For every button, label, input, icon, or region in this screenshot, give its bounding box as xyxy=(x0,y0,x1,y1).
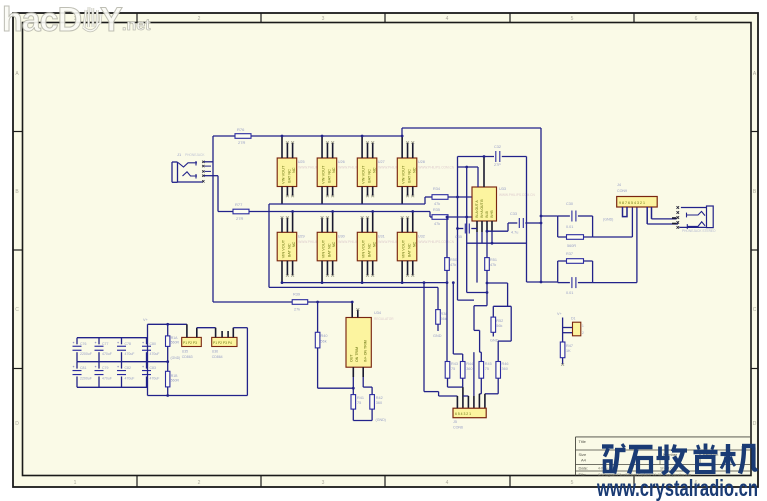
svg-text:75: 75 xyxy=(451,367,455,371)
svg-text:1: 1 xyxy=(582,324,584,328)
capacitor C33 xyxy=(508,222,517,224)
svg-text:NC: NC xyxy=(331,167,336,173)
svg-text:+: + xyxy=(117,341,119,345)
wire top pin jog xyxy=(458,166,479,168)
capacitor C76 xyxy=(73,338,92,362)
resistor R34 xyxy=(432,195,448,200)
svg-text:C35: C35 xyxy=(455,235,462,239)
wire busB drop xyxy=(437,287,439,309)
svg-text:R77: R77 xyxy=(235,202,243,207)
svg-text:27k: 27k xyxy=(294,308,300,312)
svg-text:0.01: 0.01 xyxy=(566,225,573,229)
U36 pins xyxy=(215,328,217,338)
regulator U29 xyxy=(277,210,297,284)
RC network lower C31 xyxy=(557,261,559,283)
wire bottom loop xyxy=(148,395,248,397)
svg-text:U25: U25 xyxy=(298,160,305,164)
svg-text:560R: 560R xyxy=(171,379,180,383)
svg-text:P1 P2 P3 P4: P1 P2 P3 P4 xyxy=(213,341,232,345)
svg-text:360: 360 xyxy=(466,367,472,371)
svg-text:+: + xyxy=(142,365,144,369)
svg-text:R41: R41 xyxy=(357,396,364,400)
wire vertical 447 R50 chain xyxy=(446,217,448,258)
svg-text:CD864: CD864 xyxy=(212,355,223,359)
svg-text:R43: R43 xyxy=(451,362,458,366)
svg-text:U26: U26 xyxy=(338,160,345,164)
svg-text:27R: 27R xyxy=(236,216,243,221)
wire bus1 jog up xyxy=(401,128,403,136)
svg-text:P1 P2 P3: P1 P2 P3 xyxy=(183,341,197,345)
wire busA row2 xyxy=(282,282,448,284)
wire J1 ring down xyxy=(204,175,218,177)
regulator U32 xyxy=(397,210,417,284)
capacitor C79 xyxy=(95,362,112,388)
svg-text:J5: J5 xyxy=(453,420,457,424)
svg-text:U35: U35 xyxy=(182,350,188,354)
svg-text:C30: C30 xyxy=(566,202,573,206)
svg-text:U30: U30 xyxy=(338,234,345,238)
wire mesh left stairs xyxy=(474,305,487,307)
svg-text:470uF: 470uF xyxy=(102,377,112,381)
regulator U31 xyxy=(357,210,377,284)
capacitor C32 top xyxy=(458,156,495,158)
U35 pins xyxy=(186,324,188,337)
svg-text:+: + xyxy=(117,365,119,369)
svg-text:VIN VOUT: VIN VOUT xyxy=(281,239,286,258)
svg-text:75: 75 xyxy=(357,401,361,405)
svg-text:U29: U29 xyxy=(298,234,305,238)
svg-text:C81: C81 xyxy=(80,366,86,370)
IC U36 xyxy=(212,337,237,346)
svg-text:470uF: 470uF xyxy=(125,377,135,381)
svg-text:D1: D1 xyxy=(571,317,576,321)
svg-text:NC: NC xyxy=(411,241,416,247)
svg-text:D: D xyxy=(15,421,19,427)
resistor R40 xyxy=(315,332,320,348)
regulator U27 xyxy=(357,135,377,204)
resistor R77 xyxy=(233,209,249,214)
svg-text:V+: V+ xyxy=(143,318,149,322)
svg-text:56k: 56k xyxy=(321,340,327,344)
svg-text:Title: Title xyxy=(579,439,587,444)
svg-text:56k: 56k xyxy=(441,317,447,321)
svg-text:R39: R39 xyxy=(293,293,300,297)
wire bus2 xyxy=(218,211,430,213)
svg-text:NC: NC xyxy=(371,167,376,173)
RC network upper C30 xyxy=(541,215,558,217)
svg-text:VIN VOUT: VIN VOUT xyxy=(361,165,366,184)
wire bank right vertical V+ xyxy=(147,324,149,395)
wire J1 tip to bus1 xyxy=(204,161,213,163)
svg-text:360: 360 xyxy=(376,401,382,405)
svg-text:(GND): (GND) xyxy=(171,356,181,360)
U34 top pins xyxy=(351,302,353,318)
svg-text:+: + xyxy=(95,365,97,369)
svg-text:+: + xyxy=(95,341,97,345)
resistor R50 xyxy=(445,258,450,271)
resistor R43 xyxy=(445,362,450,379)
svg-text:+: + xyxy=(142,341,144,345)
svg-text:U31: U31 xyxy=(378,234,385,238)
svg-text:2200uF: 2200uF xyxy=(80,377,92,381)
wire LED feed xyxy=(562,318,564,343)
connector J4 xyxy=(617,197,658,208)
svg-text:VIN VOUT: VIN VOUT xyxy=(281,165,286,184)
wire horizontal 231 xyxy=(487,230,508,232)
wire vertical 466.7 xyxy=(466,167,468,293)
svg-text:470uF: 470uF xyxy=(125,352,135,356)
svg-text:PHONEJACK: PHONEJACK xyxy=(185,153,205,157)
capacitor C78 xyxy=(117,338,134,362)
svg-text:R37: R37 xyxy=(566,252,573,256)
resistor R49 xyxy=(166,371,170,387)
svg-text:56k: 56k xyxy=(496,324,502,328)
wire bank rails xyxy=(77,337,148,339)
svg-text:www.crystalradio.cn: www.crystalradio.cn xyxy=(596,475,758,501)
resistor R39 xyxy=(292,300,308,305)
svg-text:3: 3 xyxy=(322,480,325,486)
wire right long vertical xyxy=(540,128,542,283)
wire horizontal 243 xyxy=(467,242,527,244)
svg-text:File:: File: xyxy=(579,472,587,477)
op-amp top pin xyxy=(483,157,485,188)
svg-text:GND: GND xyxy=(433,334,442,338)
svg-text:Size: Size xyxy=(579,452,588,457)
wire R44 feed staircase xyxy=(452,283,454,354)
svg-text:IN+ ON TRIM: IN+ ON TRIM xyxy=(364,340,368,362)
wire row1 bottom bus xyxy=(269,203,425,205)
svg-text:C: C xyxy=(15,307,19,313)
svg-text:4: 4 xyxy=(446,16,449,22)
svg-text:(GND): (GND) xyxy=(376,418,386,422)
svg-text:C33: C33 xyxy=(510,212,517,216)
svg-text:R44: R44 xyxy=(466,362,473,366)
svg-text:Y: Y xyxy=(100,1,123,39)
svg-text:U28: U28 xyxy=(418,160,425,164)
resistor R41 xyxy=(351,395,356,410)
wire left column down xyxy=(268,204,270,287)
regulator U28 xyxy=(397,135,417,204)
svg-text:PHONEJACK STEREO: PHONEJACK STEREO xyxy=(682,229,716,233)
svg-text:0.01: 0.01 xyxy=(566,291,573,295)
svg-text:CON6: CON6 xyxy=(453,426,463,430)
svg-text:R52: R52 xyxy=(496,319,503,323)
regulator U26 xyxy=(317,135,337,204)
phone jack output xyxy=(672,206,713,229)
logo crystalradio "kuang shi shou yin ji" xyxy=(602,444,757,475)
svg-text:D: D xyxy=(753,421,757,427)
svg-text:C76: C76 xyxy=(80,342,86,346)
capacitor C35 xyxy=(458,228,464,230)
svg-text:2: 2 xyxy=(198,480,201,486)
wire vertical 457.5 xyxy=(457,157,459,301)
resistor R51 xyxy=(485,258,490,271)
svg-text:GND: GND xyxy=(490,339,499,343)
svg-text:C80: C80 xyxy=(150,342,156,346)
connector J5 xyxy=(453,408,486,418)
svg-text:27R: 27R xyxy=(238,140,245,145)
capacitor C80 xyxy=(142,338,159,362)
svg-text:R45: R45 xyxy=(485,362,492,366)
svg-text:4.7u: 4.7u xyxy=(511,231,518,235)
svg-text:27P: 27P xyxy=(494,163,501,167)
svg-text:R40: R40 xyxy=(321,334,328,338)
svg-text:6 5 4 3 2 1: 6 5 4 3 2 1 xyxy=(455,412,471,416)
J4 pins xyxy=(623,207,628,217)
svg-text:C: C xyxy=(753,307,757,313)
svg-text:R50: R50 xyxy=(450,258,457,262)
title block xyxy=(576,437,752,477)
wire RC2 to connector xyxy=(593,282,637,284)
wire mesh right xyxy=(487,282,508,284)
svg-text:47k: 47k xyxy=(490,263,496,267)
svg-text:5: 5 xyxy=(571,480,574,486)
svg-text:C32: C32 xyxy=(494,145,501,149)
svg-text:R34: R34 xyxy=(433,187,440,191)
wire top rail to blocks xyxy=(148,323,187,325)
svg-text:C78: C78 xyxy=(125,342,131,346)
resistor R48 xyxy=(166,336,170,347)
svg-text:1K: 1K xyxy=(566,349,571,353)
wire R46 feed xyxy=(510,306,512,341)
resistor R37 xyxy=(558,260,593,262)
wire drop chain xyxy=(317,302,319,333)
resistor R47 xyxy=(560,342,565,358)
svg-text:U32: U32 xyxy=(418,234,425,238)
svg-text:A4: A4 xyxy=(581,458,587,463)
svg-text:V+: V+ xyxy=(557,312,563,316)
svg-text:ON TRIM: ON TRIM xyxy=(355,347,359,362)
svg-text:47k: 47k xyxy=(450,263,456,267)
wire cap column down xyxy=(526,157,528,283)
svg-text:.net: .net xyxy=(122,17,151,34)
resistor R36 xyxy=(558,236,593,238)
resistor R52 xyxy=(492,306,494,317)
svg-text:2200uF: 2200uF xyxy=(80,352,92,356)
svg-text:R51: R51 xyxy=(490,258,497,262)
regulator U34 xyxy=(346,318,371,368)
svg-text:J4: J4 xyxy=(617,183,621,187)
svg-text:NC: NC xyxy=(331,241,336,247)
regulator U25 xyxy=(277,135,297,204)
wire right loop vertical xyxy=(246,328,248,396)
svg-text:NC: NC xyxy=(411,167,416,173)
resistor R45 xyxy=(479,362,484,379)
op-amp bottom pins xyxy=(476,221,478,232)
svg-text:IN-A OUT A: IN-A OUT A xyxy=(475,200,479,218)
svg-text:NC: NC xyxy=(291,167,296,173)
svg-text:IN+A OUT B: IN+A OUT B xyxy=(480,199,484,218)
svg-text:9 8 7 6 5 4 3 2 1: 9 8 7 6 5 4 3 2 1 xyxy=(619,201,645,205)
svg-text:560R: 560R xyxy=(171,341,180,345)
svg-text:+: + xyxy=(73,341,75,345)
svg-text:U34: U34 xyxy=(374,311,381,315)
resistor R46 xyxy=(496,362,501,379)
svg-text:WWW.PHILIPS.COM.CN: WWW.PHILIPS.COM.CN xyxy=(418,166,454,170)
svg-text:47k: 47k xyxy=(434,202,440,206)
svg-text:VIN VOUT: VIN VOUT xyxy=(321,165,326,184)
IC U35 xyxy=(182,337,202,346)
svg-text:2: 2 xyxy=(198,16,201,22)
svg-text:470uF: 470uF xyxy=(150,352,160,356)
svg-text:IN-B: IN-B xyxy=(485,210,489,218)
resistor R38 xyxy=(436,310,441,325)
resistor R76 xyxy=(235,134,251,139)
resistor R44 xyxy=(460,362,465,379)
svg-text:75: 75 xyxy=(485,367,489,371)
svg-text:R42: R42 xyxy=(376,396,383,400)
capacitor C81 xyxy=(73,362,92,388)
connector J1 input phone jack xyxy=(172,161,211,183)
svg-text:NC: NC xyxy=(371,241,376,247)
svg-text:VIN VOUT: VIN VOUT xyxy=(361,239,366,258)
svg-text:R76: R76 xyxy=(237,127,245,132)
wire R41 R42 join xyxy=(352,409,354,420)
svg-text:R1A: R1A xyxy=(171,336,178,340)
svg-text:VIN VOUT: VIN VOUT xyxy=(321,239,326,258)
svg-text:47k: 47k xyxy=(434,222,440,226)
svg-text:CON9: CON9 xyxy=(617,189,627,193)
svg-text:6: 6 xyxy=(695,16,698,22)
svg-text:C82: C82 xyxy=(125,366,131,370)
svg-text:VIN VOUT: VIN VOUT xyxy=(401,165,406,184)
regulator U30 xyxy=(317,210,337,284)
svg-text:Date:: Date: xyxy=(579,466,589,471)
svg-text:C79: C79 xyxy=(102,366,108,370)
svg-text:REGULATOR: REGULATOR xyxy=(374,317,394,321)
watermark haoDIY.net xyxy=(2,1,151,39)
svg-text:C83: C83 xyxy=(150,366,156,370)
svg-text:U33: U33 xyxy=(499,187,506,191)
svg-text:U27: U27 xyxy=(378,160,385,164)
svg-text:NC: NC xyxy=(291,241,296,247)
wire pins 2,3 xyxy=(462,387,464,408)
wire left vertical from J1 xyxy=(212,136,214,302)
wire busB xyxy=(269,286,438,288)
U34 bottom pins xyxy=(352,367,354,377)
svg-text:R35: R35 xyxy=(433,208,440,212)
svg-text:WWW.PHILIPS.COM.CN: WWW.PHILIPS.COM.CN xyxy=(418,240,454,244)
resistor R42 xyxy=(370,395,375,410)
wire R48 chain xyxy=(167,324,169,336)
svg-text:C77: C77 xyxy=(102,342,108,346)
capacitor C82 xyxy=(117,362,134,388)
op-amp U33 xyxy=(472,187,497,221)
svg-text:U36: U36 xyxy=(212,350,218,354)
svg-text:OUT: OUT xyxy=(350,354,354,362)
svg-text:360: 360 xyxy=(502,367,508,371)
svg-text:4: 4 xyxy=(446,480,449,486)
wire bus1 top xyxy=(213,135,402,137)
resistor R35 xyxy=(432,215,448,220)
svg-text:R47: R47 xyxy=(566,344,573,348)
svg-text:R46: R46 xyxy=(502,362,509,366)
svg-text:+: + xyxy=(73,365,75,369)
capacitor C83 xyxy=(142,362,159,388)
wire vertical 424 xyxy=(423,283,425,392)
LED D1 xyxy=(573,322,581,336)
svg-text:(GND): (GND) xyxy=(603,218,613,222)
wire vertical 474 xyxy=(473,352,475,396)
svg-text:VIN VOUT: VIN VOUT xyxy=(401,239,406,258)
svg-text:470uF: 470uF xyxy=(150,377,160,381)
svg-text:IN+B: IN+B xyxy=(490,210,494,218)
svg-text:5: 5 xyxy=(571,16,574,22)
svg-text:WWW.PHILIPS.COM.CN: WWW.PHILIPS.COM.CN xyxy=(499,193,535,197)
svg-text:470uF: 470uF xyxy=(102,352,112,356)
svg-text:hacD: hacD xyxy=(2,1,82,39)
svg-text:R1B: R1B xyxy=(171,374,178,378)
svg-text:3: 3 xyxy=(322,16,325,22)
wire mid horizontal xyxy=(213,301,353,303)
svg-text:560R: 560R xyxy=(567,244,576,248)
wire RC2 feed xyxy=(527,281,558,283)
wire RC1 to connector xyxy=(593,236,633,238)
capacitor C77 xyxy=(95,338,112,362)
svg-text:2: 2 xyxy=(582,331,584,335)
svg-text:CD863: CD863 xyxy=(182,355,193,359)
svg-text:1: 1 xyxy=(74,480,77,486)
